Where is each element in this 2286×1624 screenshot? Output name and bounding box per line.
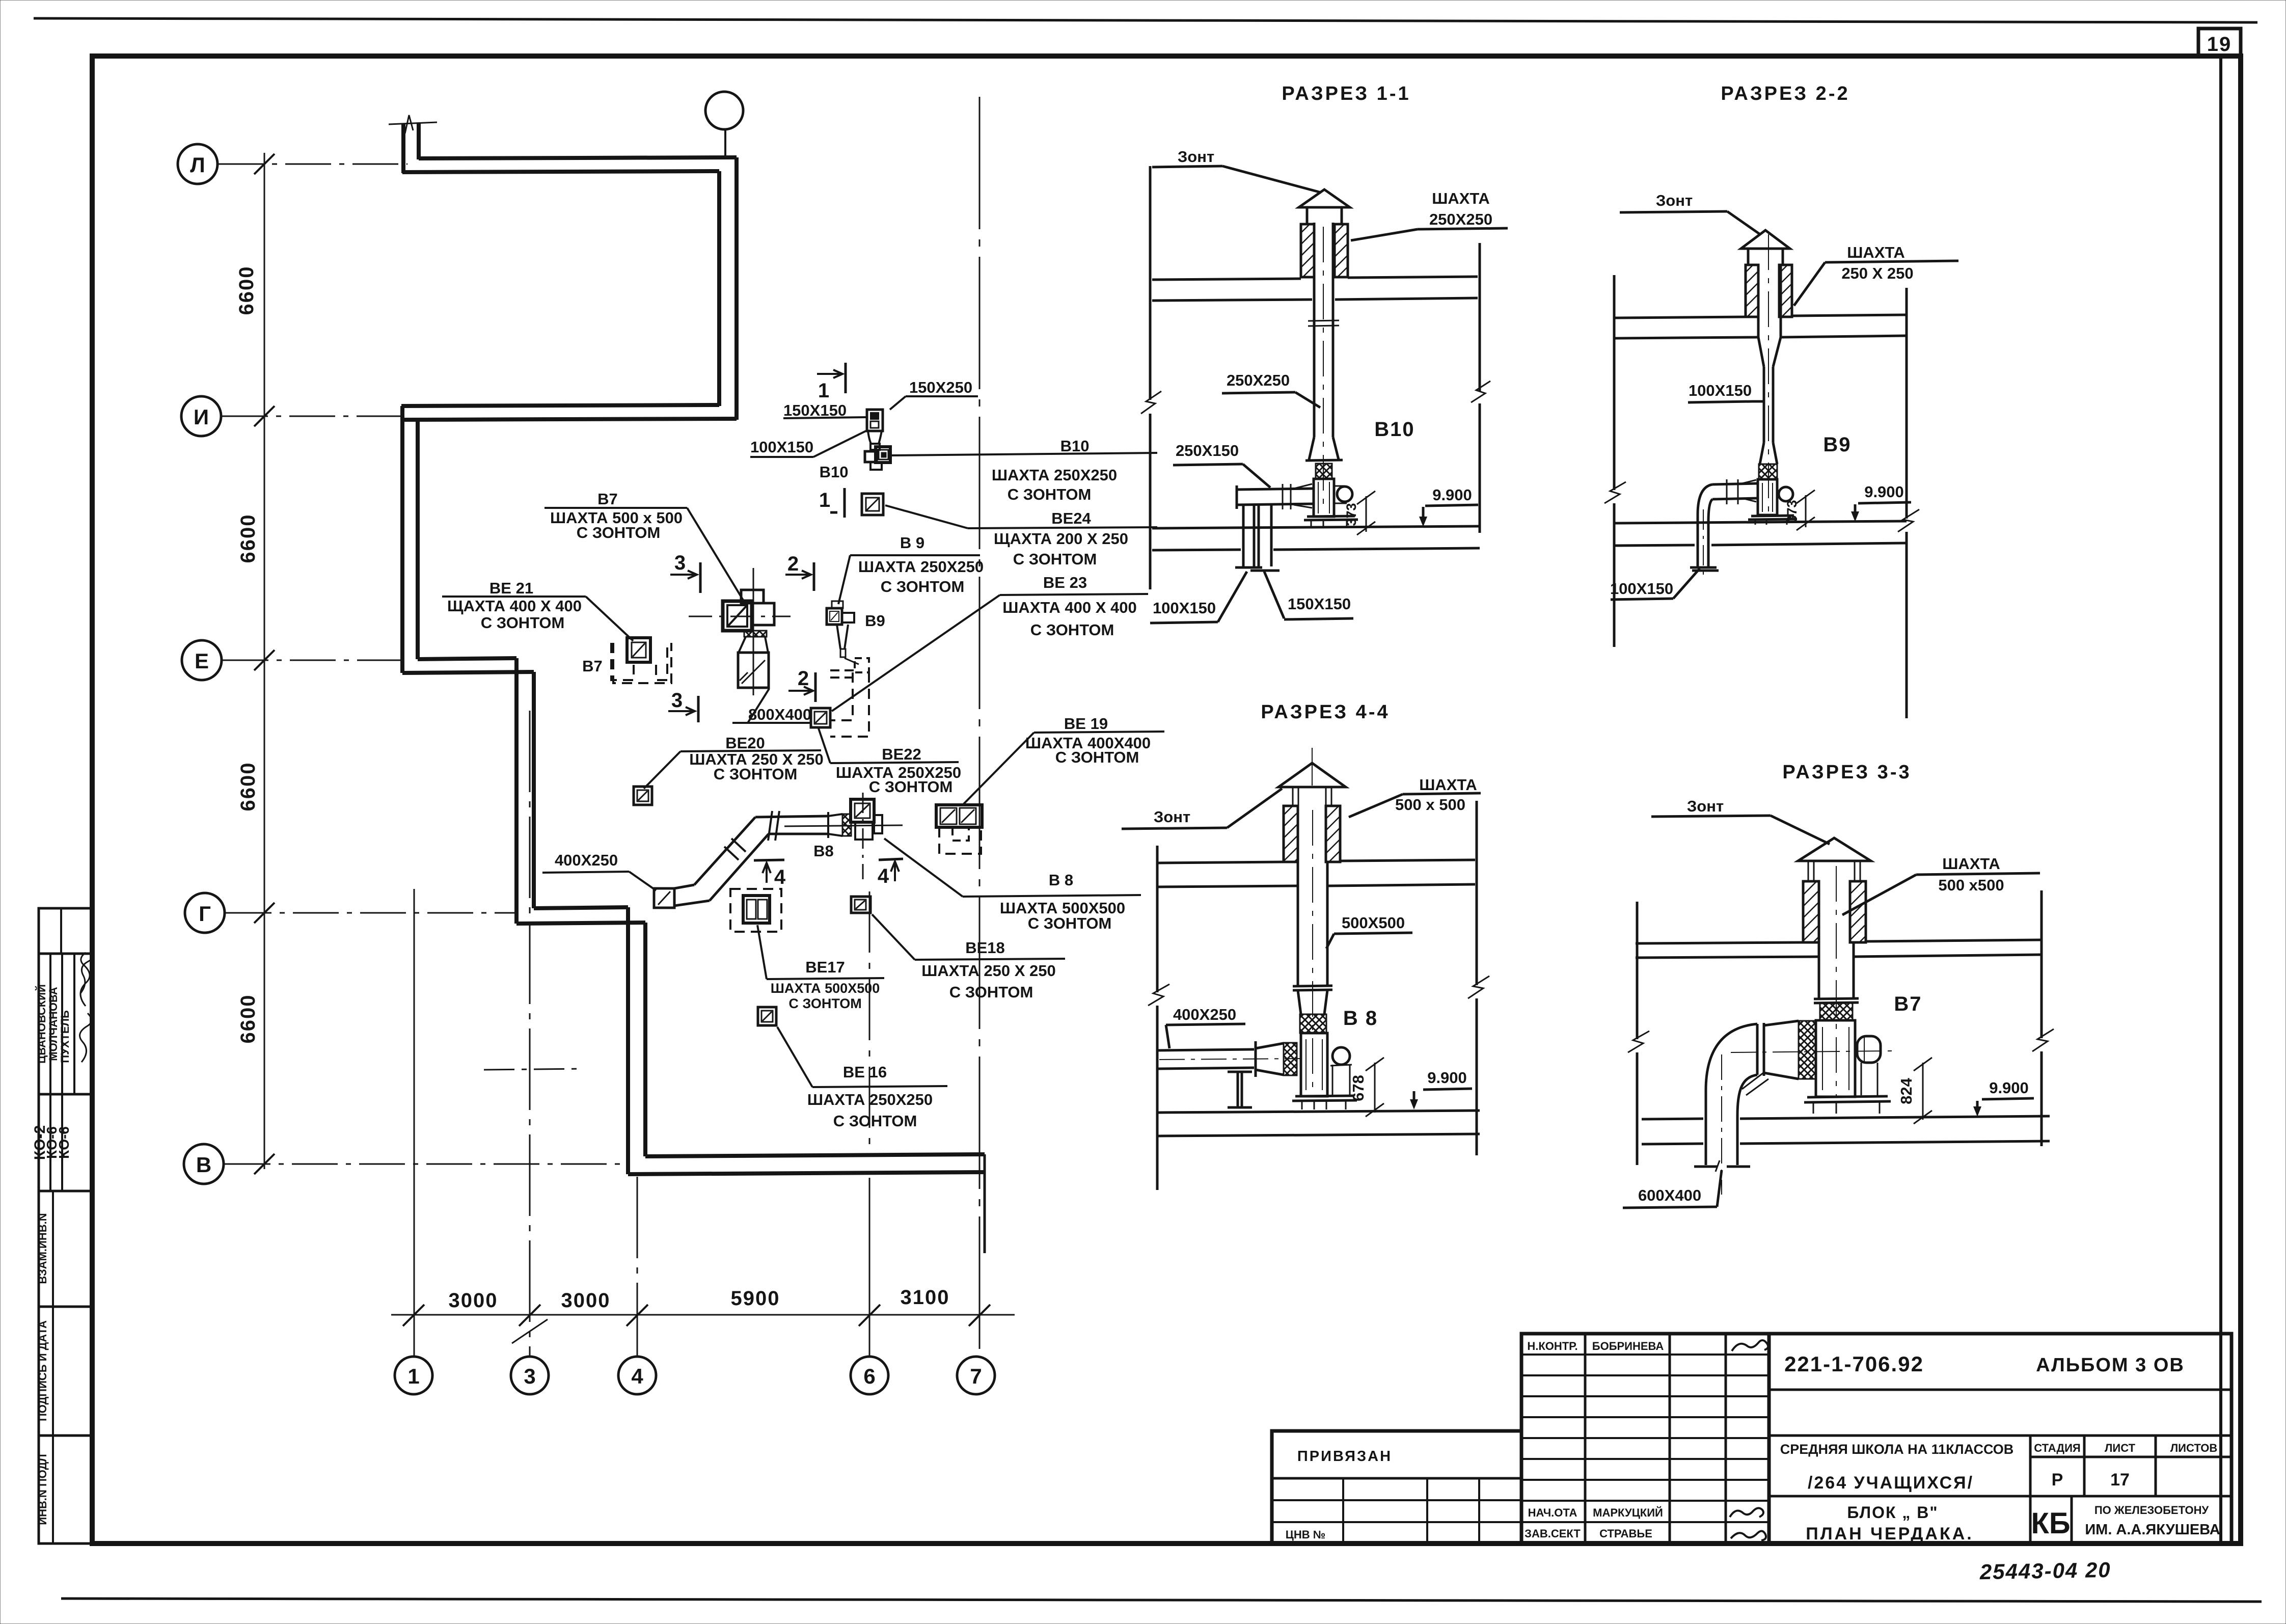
ШАХТА leader sec3-3 bbox=[1842, 875, 1916, 915]
sec3-3 right break mark bbox=[2032, 1029, 2054, 1051]
sec3-3 duct centerline bbox=[1836, 866, 1837, 1098]
KB logo divider bbox=[2071, 1496, 2073, 1544]
svg-text:3: 3 bbox=[524, 1364, 535, 1388]
В9 tail bbox=[840, 649, 846, 657]
names table divider 2 bbox=[61, 954, 63, 1094]
label ВЕ18 underline bbox=[915, 959, 1065, 960]
svg-text:6: 6 bbox=[863, 1364, 875, 1388]
ВЕ18 diagonal bbox=[856, 901, 865, 909]
svg-text:150Х150: 150Х150 bbox=[1288, 595, 1351, 613]
sec4-4 floor slab bottom line bbox=[1158, 1134, 1480, 1136]
duct end cap diagonal bbox=[658, 891, 670, 905]
sec1-1 intake duct bottom line bbox=[1237, 504, 1314, 505]
sec1-1 roof slab bottom line bbox=[1152, 298, 1478, 301]
В8 damper outer square bbox=[851, 799, 874, 822]
wall Г-В left line bbox=[626, 907, 630, 1174]
svg-text:С ЗОНТОМ: С ЗОНТОМ bbox=[1055, 748, 1139, 766]
exhaust ВЕ19 double square body bbox=[936, 805, 982, 827]
leader В7 bbox=[687, 508, 743, 600]
top wall inner line bbox=[419, 157, 737, 158]
В10 inner square lower bbox=[870, 421, 879, 428]
Зонт leader sec3-3 bbox=[1771, 816, 1830, 844]
В8 damper inner square bbox=[855, 803, 870, 818]
sec4-4 umbrella legs bbox=[1293, 788, 1331, 805]
grid bubble Л bbox=[178, 144, 217, 184]
100X150 leader sec1-1 bbox=[1218, 572, 1247, 622]
dim 373 ticks sec2-2 bbox=[1797, 490, 1815, 530]
svg-text:373: 373 bbox=[1784, 500, 1800, 523]
500X500 underline sec4-4 bbox=[1334, 933, 1412, 934]
svg-text:В 9: В 9 bbox=[900, 534, 924, 552]
section mark 3 bottom: arrow bbox=[668, 707, 695, 715]
ВЕ16 diagonal bbox=[763, 1012, 772, 1021]
sec3-3 intake flexible connector bbox=[1799, 1021, 1816, 1079]
В7 outlet box bbox=[738, 653, 769, 688]
sec2-2 umbrella cap bbox=[1741, 230, 1790, 249]
KO box divider 2 bbox=[61, 1094, 63, 1191]
В10 outlet core bbox=[881, 452, 886, 457]
sec4-4 duct centerline bbox=[1312, 810, 1313, 1095]
column line 6 bbox=[869, 1178, 870, 1357]
svg-text:ЦНВ №: ЦНВ № bbox=[1286, 1528, 1325, 1541]
svg-text:ПОДПИСЬ И ДАТА: ПОДПИСЬ И ДАТА bbox=[36, 1320, 49, 1421]
svg-text:С ЗОНТОМ: С ЗОНТОМ bbox=[481, 614, 565, 632]
main box row line 2 bbox=[1769, 1434, 2231, 1437]
svg-text:БОБРИНЕВА: БОБРИНЕВА bbox=[1592, 1340, 1664, 1352]
100X150 leader sec2-2 bbox=[1753, 400, 1764, 403]
svg-text:ИНВ.N ПОДЛ: ИНВ.N ПОДЛ bbox=[36, 1454, 49, 1525]
svg-text:В7: В7 bbox=[1894, 993, 1922, 1015]
svg-text:ЩАХТА 200 Х 250: ЩАХТА 200 Х 250 bbox=[994, 530, 1128, 548]
stage table divider vertical 1 bbox=[2029, 1436, 2032, 1544]
fan unit В10: junction box bbox=[867, 410, 883, 431]
ВЕ19 left diagonal bbox=[942, 809, 955, 823]
label В7 underline bbox=[545, 507, 687, 509]
svg-text:ПУХТЕЛЬ: ПУХТЕЛЬ bbox=[59, 1010, 71, 1063]
sec1-1 roof slab top line bbox=[1152, 277, 1478, 280]
Е wall outer line bbox=[402, 672, 534, 673]
section mark 4 right: bar bbox=[879, 859, 903, 860]
svg-text:9.900: 9.900 bbox=[1432, 486, 1472, 504]
sec2-2 intake duct top line bbox=[1712, 483, 1758, 484]
sec4-4 expansion cone bbox=[1256, 1043, 1284, 1075]
tick at Л bbox=[254, 154, 275, 174]
sec3-3 fan motor bbox=[1857, 1036, 1881, 1063]
sec3-3 umbrella legs bbox=[1808, 861, 1860, 880]
ВЕ23 inner square bbox=[814, 712, 827, 724]
svg-text:1: 1 bbox=[407, 1364, 419, 1388]
sec3-3 fan base bbox=[1804, 1096, 1891, 1102]
sec3-3 intake cone bottom bbox=[1764, 1073, 1799, 1079]
sec4-4 fan motor bbox=[1332, 1047, 1350, 1065]
svg-text:КБ: КБ bbox=[2031, 1507, 2070, 1540]
9.900 underline sec2-2 bbox=[1858, 502, 1911, 503]
sec4-4 roof slab top line bbox=[1158, 860, 1475, 863]
sec2-2 left boundary wall line bbox=[1613, 275, 1616, 490]
section mark 2 top: bar bbox=[813, 562, 815, 591]
svg-text:1: 1 bbox=[818, 380, 830, 402]
section mark 4 left: arrow bbox=[763, 863, 771, 883]
sec2-2 roof slab bottom line bbox=[1614, 336, 1907, 338]
section mark 2 bottom: arrow bbox=[788, 687, 813, 695]
9.900 underline sec4-4 bbox=[1423, 1089, 1472, 1090]
KO codes box bbox=[39, 1094, 92, 1191]
svg-text:В10: В10 bbox=[820, 463, 849, 481]
sec3-3 elbow joint tick bbox=[1742, 1073, 1768, 1095]
ШАХТА underline sec4-4 bbox=[1403, 793, 1481, 794]
ВЕ17 dashed surround bbox=[730, 889, 781, 932]
column bubble 3 bbox=[511, 1357, 549, 1394]
sec1-1 duct right line bbox=[1332, 223, 1335, 437]
svg-text:2: 2 bbox=[787, 553, 800, 575]
label ВЕ21 underline bbox=[442, 596, 586, 598]
left wall И-Е outer line bbox=[400, 406, 404, 673]
sec4-4 I-beam support bbox=[1228, 1072, 1252, 1107]
grid axis В line bbox=[225, 1163, 628, 1165]
В7 top small rect bbox=[741, 590, 764, 603]
right wall outer line bbox=[734, 157, 739, 420]
svg-text:ШАХТА: ШАХТА bbox=[1942, 855, 2000, 873]
sec4-4 roof slab bottom line bbox=[1158, 884, 1475, 887]
tick at Е bbox=[254, 650, 275, 670]
ВЕ21 dashed outer bbox=[613, 643, 671, 683]
svg-text:3: 3 bbox=[671, 689, 684, 712]
sec2-2 pipe centerline bbox=[1703, 509, 1704, 581]
svg-text:ВЕ 16: ВЕ 16 bbox=[843, 1063, 887, 1081]
В10 neck bbox=[870, 444, 880, 450]
sec4-4 intake duct bottom line bbox=[1158, 1068, 1254, 1069]
ВЕ19 inner square right bbox=[960, 808, 976, 824]
sec1-1 duct flange bbox=[1308, 320, 1339, 326]
ВЕ23 dashed duct vertical outer bbox=[830, 672, 869, 737]
svg-text:РАЗРЕЗ 2-2: РАЗРЕЗ 2-2 bbox=[1721, 83, 1849, 104]
ВЕ19 inner square left bbox=[940, 808, 957, 824]
dim 373 line sec1-1 bbox=[1366, 496, 1367, 532]
svg-text:6600: 6600 bbox=[237, 994, 259, 1044]
grid axis Г line bbox=[226, 912, 516, 914]
sec3-3 right boundary wall line bbox=[2040, 890, 2043, 1038]
svg-text:3: 3 bbox=[674, 552, 687, 574]
damper ВЕ24 square bbox=[862, 494, 883, 515]
sec4-4 fan base bbox=[1292, 1096, 1357, 1101]
sec1-1 fan base bbox=[1304, 516, 1358, 520]
Г wall top line bbox=[534, 907, 628, 908]
В wall top line bbox=[645, 1154, 985, 1156]
ВЕ21 diagonal bbox=[633, 643, 645, 657]
names table bbox=[39, 954, 92, 1094]
sec3-3 floor slab bottom line bbox=[1642, 1141, 2050, 1144]
KO box divider 1 bbox=[49, 1094, 51, 1191]
В8 centerline horizontal bbox=[784, 825, 903, 826]
sec3-3 flexible connector bbox=[1820, 1003, 1853, 1020]
svg-text:ПРИВЯЗАН: ПРИВЯЗАН bbox=[1297, 1448, 1392, 1465]
sec4-4 left break mark bbox=[1148, 984, 1169, 1006]
tick at И bbox=[254, 406, 275, 426]
Зонт leader sec1-1 bbox=[1222, 166, 1321, 193]
inner right margin line bbox=[2219, 57, 2222, 1542]
fan unit В9: damper square bbox=[827, 608, 842, 625]
leader ВЕ16 bbox=[777, 1027, 812, 1087]
svg-text:С ЗОНТОМ: С ЗОНТОМ bbox=[869, 778, 953, 796]
svg-text:РАЗРЕЗ 4-4: РАЗРЕЗ 4-4 bbox=[1261, 701, 1390, 723]
sec2-2 fan base bbox=[1748, 516, 1797, 520]
svg-text:КО-6: КО-6 bbox=[56, 1126, 72, 1159]
svg-text:С ЗОНТОМ: С ЗОНТОМ bbox=[949, 983, 1033, 1001]
section mark 1 bottom: dot bbox=[830, 511, 837, 514]
sec1-1 right boundary wall line bbox=[1479, 243, 1481, 391]
duct joint ticks bbox=[768, 811, 779, 841]
sec1-1 left boundary wall line bbox=[1149, 166, 1152, 400]
sec4-4 duct flange bbox=[1293, 986, 1332, 990]
svg-text:СТРАВЬЕ: СТРАВЬЕ bbox=[1599, 1527, 1652, 1540]
sec2-2 intake duct bottom line bbox=[1712, 498, 1758, 499]
svg-text:Г: Г bbox=[199, 902, 211, 926]
svg-text:АЛЬБОМ 3 ОВ: АЛЬБОМ 3 ОВ bbox=[2036, 1355, 2185, 1376]
svg-text:ШАХТА 250 Х 250: ШАХТА 250 Х 250 bbox=[921, 962, 1056, 980]
svg-text:9.900: 9.900 bbox=[1864, 483, 1904, 501]
svg-text:ШАХТА 250Х250: ШАХТА 250Х250 bbox=[858, 558, 984, 576]
sec3-3 left break mark bbox=[1628, 1031, 1649, 1052]
svg-text:25443-04 20: 25443-04 20 bbox=[1979, 1558, 2111, 1584]
signature squiggle 2 bbox=[80, 953, 90, 1006]
label В8 underline bbox=[963, 895, 1141, 897]
Зонт underline sec3-3 bbox=[1651, 816, 1771, 817]
sec3-3 elbow outer bbox=[1706, 1024, 1757, 1165]
ВЕ24 diagonal bbox=[866, 498, 879, 511]
svg-text:РАЗРЕЗ 1-1: РАЗРЕЗ 1-1 bbox=[1282, 83, 1410, 104]
tick at column 1 bbox=[403, 1305, 424, 1326]
privyazan column 3 bbox=[1478, 1478, 1480, 1544]
sec1-1 fan motor bbox=[1337, 486, 1352, 502]
В9 top lug bbox=[832, 601, 843, 608]
sec3-3 elbow axis horizontal bbox=[1731, 1051, 1893, 1052]
svg-text:МАРКУЦКИЙ: МАРКУЦКИЙ bbox=[1593, 1506, 1663, 1519]
sec4-4 duct right line bbox=[1326, 862, 1329, 986]
sec3-3 umbrella cap bbox=[1798, 838, 1871, 861]
ВЕ19 dashed duct U inner bbox=[953, 827, 969, 841]
sec2-2 fan motor bbox=[1779, 487, 1793, 501]
svg-text:Е: Е bbox=[195, 649, 209, 673]
Зонт leader sec2-2 bbox=[1727, 211, 1759, 234]
В8 inlet cone bbox=[828, 814, 842, 836]
100X150 underline sec1-1 bbox=[1150, 622, 1218, 623]
sec1-1 fan body bbox=[1314, 479, 1334, 517]
duct 400x250 diagonal outer line bbox=[694, 817, 755, 885]
sec2-2 reducing cone bbox=[1758, 337, 1781, 367]
И wall bottom line bbox=[401, 419, 737, 420]
sec1-1 fan feet bbox=[1311, 520, 1347, 527]
sec4-4 fan body bbox=[1301, 1033, 1327, 1096]
svg-text:Л: Л bbox=[190, 153, 205, 177]
ВЕ21 dashed duct right leg bbox=[656, 643, 667, 680]
svg-text:С ЗОНТОМ: С ЗОНТОМ bbox=[714, 765, 798, 783]
150X150 leader sec1-1 bbox=[1264, 572, 1284, 618]
dim 824 line sec3-3 bbox=[1922, 1063, 1924, 1120]
В10 outlet inner square bbox=[879, 450, 888, 459]
svg-text:7: 7 bbox=[970, 1364, 982, 1388]
В7 centerline horizontal bbox=[689, 616, 791, 617]
column bubble 4 bbox=[618, 1357, 656, 1394]
privyazan row line 1 bbox=[1272, 1477, 1521, 1480]
sec4-4 fan inner lines bbox=[1306, 1039, 1322, 1090]
svg-text:400Х250: 400Х250 bbox=[555, 851, 618, 869]
Зонт underline sec4-4 bbox=[1122, 828, 1227, 829]
9.900 arrow sec4-4 bbox=[1413, 1091, 1416, 1106]
sec1-1 shaft hatched wall left bbox=[1301, 224, 1314, 277]
stage table divider vertical 3 bbox=[2155, 1436, 2157, 1496]
svg-text:С ЗОНТОМ: С ЗОНТОМ bbox=[833, 1112, 917, 1130]
duct 400x250 end segment top bbox=[674, 885, 694, 888]
100X150 bottom leader sec2-2 bbox=[1673, 569, 1700, 599]
sec3-3 fan inner lines bbox=[1822, 1027, 1849, 1090]
fan unit В7: centerline vertical bbox=[753, 568, 754, 695]
svg-text:6600: 6600 bbox=[237, 762, 259, 811]
sec4-4 shaft hatched wall left bbox=[1284, 806, 1298, 862]
ВЕ17 inner square right bbox=[758, 900, 767, 919]
svg-text:С ЗОНТОМ: С ЗОНТОМ bbox=[1013, 550, 1097, 568]
В7 flexible connector bbox=[744, 631, 767, 637]
100X150 bottom underline sec2-2 bbox=[1611, 599, 1673, 600]
sec1-1 riser pipe 2 bbox=[1259, 505, 1271, 566]
svg-text:В: В bbox=[196, 1153, 211, 1177]
wall break zigzag bbox=[405, 115, 413, 133]
svg-text:В8: В8 bbox=[813, 842, 834, 860]
dim 373 line sec2-2 bbox=[1805, 495, 1807, 527]
label ВЕ24 underline bbox=[968, 527, 1157, 528]
leader ВЕ23 bbox=[832, 595, 1000, 711]
svg-text:100Х150: 100Х150 bbox=[1610, 580, 1673, 598]
inv N divider bbox=[52, 1436, 54, 1544]
sec4-4 shaft hatched wall right bbox=[1326, 806, 1340, 862]
svg-text:ШАХТА 500Х500: ШАХТА 500Х500 bbox=[771, 981, 880, 996]
svg-text:С ЗОНТОМ: С ЗОНТОМ bbox=[1028, 914, 1112, 932]
sec2-2 right boundary wall line bbox=[1906, 288, 1908, 519]
В wall bottom line bbox=[628, 1172, 985, 1174]
ВЕ20 inner square bbox=[637, 790, 648, 801]
exhaust ВЕ18 square bbox=[851, 897, 870, 913]
svg-text:ВЕ 19: ВЕ 19 bbox=[1064, 715, 1108, 733]
В7 side rect bbox=[752, 603, 774, 625]
sec4-4 right break mark bbox=[1468, 976, 1489, 998]
signature squiggle 3 bbox=[80, 1013, 92, 1062]
svg-text:В10: В10 bbox=[1060, 437, 1090, 455]
svg-text:100Х150: 100Х150 bbox=[1689, 382, 1752, 399]
svg-text:Р: Р bbox=[2052, 1470, 2063, 1490]
sec1-1 duct left line bbox=[1313, 223, 1316, 437]
names table divider 1 bbox=[49, 954, 51, 1094]
В9 damper diagonal bbox=[831, 612, 838, 620]
sec2-2 fan body bbox=[1758, 479, 1777, 515]
sec1-1 floor slab bottom line bbox=[1152, 548, 1480, 550]
left dimension chain line bbox=[264, 153, 265, 1169]
label 800X400 underline bbox=[732, 722, 810, 724]
svg-text:ШАХТА 400 Х 400: ШАХТА 400 Х 400 bbox=[1002, 599, 1137, 616]
signature squiggle 1 bbox=[80, 951, 93, 993]
sec3-3 roof slab top line bbox=[1636, 940, 2042, 943]
ВЕ23 dashed top square bbox=[855, 658, 869, 672]
right wall inner line bbox=[717, 171, 721, 406]
privyazan column 2 bbox=[1426, 1478, 1428, 1544]
column line 6 upper dashed bbox=[869, 891, 870, 1156]
sec2-2 duct centerline bbox=[1768, 234, 1769, 512]
9.900 underline sec1-1 bbox=[1425, 505, 1478, 506]
svg-text:ВЗАМ.ИНВ.N: ВЗАМ.ИНВ.N bbox=[36, 1213, 49, 1284]
sec3-3 shaft hatched wall left bbox=[1803, 881, 1819, 942]
svg-text:400Х250: 400Х250 bbox=[1173, 1006, 1236, 1023]
svg-text:ВЕ 21: ВЕ 21 bbox=[489, 579, 533, 597]
sec4-4 intake duct top line bbox=[1158, 1049, 1254, 1050]
grid bubble И bbox=[181, 396, 221, 436]
svg-text:3000: 3000 bbox=[561, 1289, 611, 1312]
duct elbow joint ticks bbox=[724, 838, 746, 860]
sec3-3 motor bracket bbox=[1861, 1063, 1877, 1095]
svg-text:С ЗОНТОМ: С ЗОНТОМ bbox=[881, 578, 965, 596]
svg-text:Н.КОНТР.: Н.КОНТР. bbox=[1527, 1340, 1577, 1352]
В10 cross duct body bbox=[865, 451, 877, 462]
privyazan column 1 bbox=[1342, 1478, 1344, 1544]
signatures table column line 1 bbox=[1584, 1334, 1587, 1544]
duct 400x250 horizontal top line bbox=[755, 816, 828, 817]
svg-text:1: 1 bbox=[819, 489, 831, 511]
svg-text:БЛОК „ В": БЛОК „ В" bbox=[1847, 1503, 1938, 1522]
label ВЕ22 underline bbox=[830, 762, 959, 763]
sec2-2 shaft hatched wall right bbox=[1779, 265, 1792, 317]
grid axis И line bbox=[222, 416, 402, 417]
В8 damper diagonal bbox=[856, 804, 869, 817]
ШАХТА leader sec4-4 bbox=[1349, 794, 1403, 817]
ВЕ16 inner square bbox=[761, 1011, 773, 1022]
flag mast circle bbox=[705, 92, 743, 129]
ВЕ21 inner square bbox=[632, 642, 646, 658]
svg-text:6600: 6600 bbox=[235, 266, 258, 315]
sec1-1 flexible connector bbox=[1316, 464, 1332, 479]
sec3-3 fan feet bbox=[1813, 1102, 1880, 1114]
svg-text:РАЗРЕЗ 3-3: РАЗРЕЗ 3-3 bbox=[1782, 762, 1911, 783]
svg-text:ПЛАН ЧЕРДАКА.: ПЛАН ЧЕРДАКА. bbox=[1806, 1524, 1973, 1544]
exhaust ВЕ23 square bbox=[811, 708, 830, 727]
ВЕ18 inner square bbox=[855, 900, 866, 910]
wall stub outer line bbox=[401, 123, 405, 173]
label 150X250 underline bbox=[906, 395, 978, 397]
stray tick at column 3 bbox=[512, 1319, 548, 1343]
signatures box divider bbox=[60, 908, 62, 954]
column line 1 bbox=[414, 889, 415, 1357]
svg-text:В 8: В 8 bbox=[1049, 871, 1073, 889]
В8 flexible connector bbox=[842, 814, 851, 836]
В7 diffuser cone bbox=[739, 637, 768, 653]
Зонт leader sec4-4 bbox=[1227, 789, 1282, 828]
9.900 arrow sec3-3 bbox=[1976, 1101, 1979, 1114]
250X250 leader bbox=[1295, 392, 1320, 408]
sec2-2 floor slab bottom line bbox=[1614, 543, 1907, 546]
9.900 underline sec3-3 bbox=[1982, 1098, 2034, 1099]
svg-text:ВЕ 23: ВЕ 23 bbox=[1043, 574, 1087, 591]
leader 400X250 bbox=[629, 872, 656, 890]
250X150 leader bbox=[1243, 464, 1270, 488]
В10 tail stub bbox=[870, 462, 882, 470]
wall stub inner line bbox=[417, 123, 421, 159]
svg-text:600Х400: 600Х400 bbox=[1638, 1186, 1701, 1204]
sheet bottom edge line bbox=[61, 1599, 2262, 1602]
column bubble 7 bbox=[957, 1357, 995, 1394]
vzam inv divider bbox=[52, 1191, 54, 1307]
flag mast stem bbox=[724, 129, 726, 158]
svg-text:С ЗОНТОМ: С ЗОНТОМ bbox=[1030, 621, 1114, 639]
ШАХТА leader sec2-2 bbox=[1794, 262, 1825, 306]
svg-text:Зонт: Зонт bbox=[1687, 797, 1724, 815]
svg-text:824: 824 bbox=[1897, 1077, 1915, 1104]
ВЕ23 diagonal bbox=[815, 713, 826, 723]
